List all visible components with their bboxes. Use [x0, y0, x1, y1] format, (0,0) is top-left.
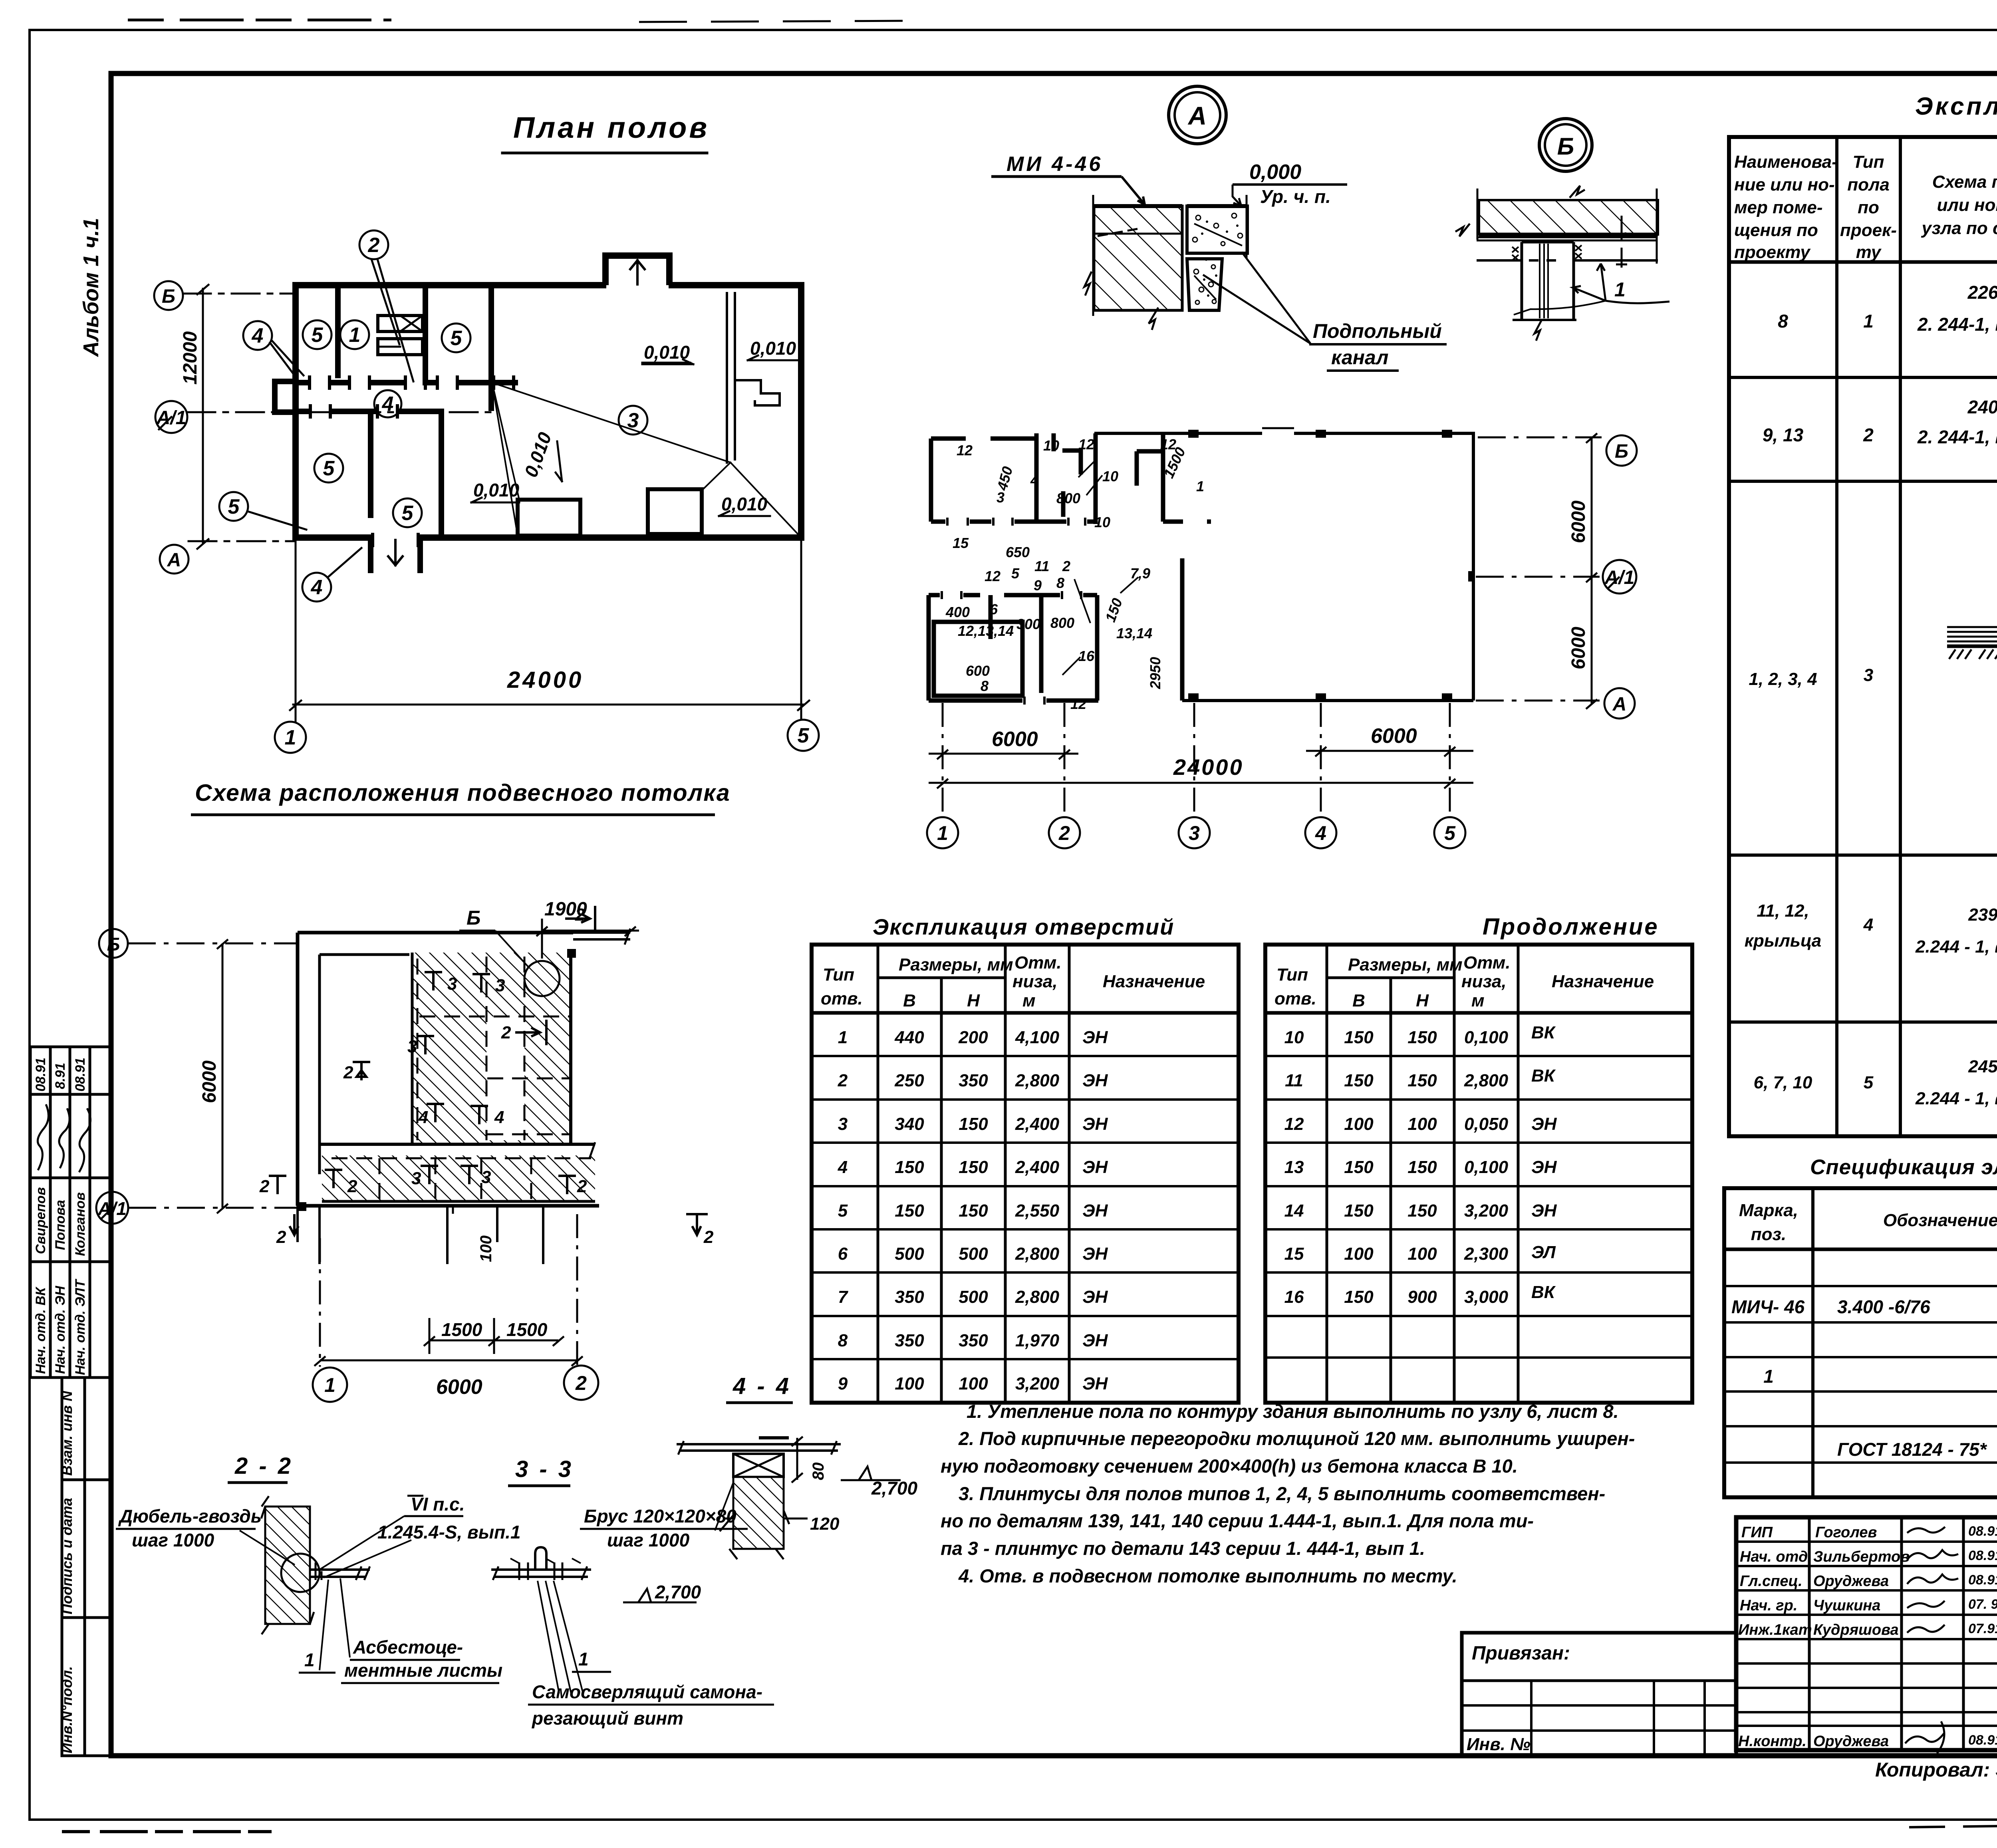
svg-text:10: 10 — [1102, 468, 1118, 484]
svg-text:8: 8 — [1056, 575, 1064, 591]
svg-text:5: 5 — [1444, 822, 1456, 844]
detail B callout — [1539, 119, 1592, 171]
svg-text:щения по: щения по — [1734, 220, 1818, 240]
svg-text:Марка,: Марка, — [1739, 1201, 1798, 1220]
table 1 data — [838, 1028, 1108, 1393]
speckles — [1193, 213, 1243, 304]
svg-text:Тип: Тип — [1853, 152, 1884, 172]
svg-text:07.91: 07.91 — [1968, 1621, 1997, 1636]
svg-text:Инв. №: Инв. № — [1467, 1735, 1531, 1754]
ceiling line — [1477, 259, 1658, 262]
svg-text:Попова: Попова — [53, 1200, 68, 1250]
svg-text:низа,: низа, — [1012, 972, 1058, 991]
svg-text:239: 239 — [1968, 905, 1997, 925]
svg-text:Размеры, мм: Размеры, мм — [899, 955, 1013, 975]
svg-text:350: 350 — [959, 1331, 988, 1350]
svg-text:поз.: поз. — [1751, 1225, 1786, 1244]
small left annex — [275, 381, 296, 412]
svg-text:10: 10 — [1284, 1028, 1304, 1047]
svg-text:ЭН: ЭН — [1082, 1201, 1108, 1221]
svg-text:12: 12 — [957, 442, 973, 459]
svg-text:2,800: 2,800 — [1015, 1287, 1060, 1307]
leader lines small plan — [1062, 459, 1138, 675]
svg-text:4: 4 — [1315, 822, 1326, 844]
svg-text:400: 400 — [945, 604, 970, 620]
svg-text:1900: 1900 — [544, 899, 587, 920]
svg-text:1: 1 — [1614, 278, 1626, 301]
svg-text:1.245.4-S, вып.1: 1.245.4-S, вып.1 — [377, 1522, 521, 1542]
svg-text:6: 6 — [838, 1244, 848, 1264]
svg-text:1: 1 — [1196, 478, 1204, 494]
svg-text:08.91: 08.91 — [73, 1058, 88, 1092]
svg-text:Нач. отд. ВК: Нач. отд. ВК — [33, 1286, 48, 1374]
svg-text:па 3 - плинтус по детали: па 3 - плинтус по детали 143 серии 1. 44… — [941, 1538, 1425, 1559]
svg-text:150: 150 — [1407, 1071, 1437, 1090]
slope diagonals — [492, 383, 801, 538]
svg-text:2,800: 2,800 — [1464, 1071, 1509, 1090]
svg-text:Ур. ч. п.: Ур. ч. п. — [1260, 186, 1331, 207]
svg-text:ЭЛ: ЭЛ — [1531, 1243, 1556, 1262]
svg-text:2,700: 2,700 — [655, 1582, 701, 1602]
svg-text:100: 100 — [1407, 1114, 1437, 1134]
svg-text:08.91: 08.91 — [1968, 1572, 1997, 1588]
svg-text:ГОСТ 18124 - 75*: ГОСТ 18124 - 75* — [1837, 1439, 1987, 1460]
section mark 2 top — [290, 906, 708, 1235]
svg-text:150: 150 — [895, 1157, 924, 1177]
svg-text:24000: 24000 — [1173, 754, 1244, 780]
svg-text:3: 3 — [627, 409, 639, 432]
svg-text:3: 3 — [411, 1169, 421, 1188]
svg-text:2: 2 — [838, 1071, 848, 1090]
svg-text:12: 12 — [1284, 1114, 1304, 1134]
vestibule arrow — [630, 260, 645, 284]
svg-text:5: 5 — [798, 724, 810, 747]
svg-text:ЭН: ЭН — [1082, 1374, 1108, 1393]
detail A callout — [1169, 86, 1226, 144]
svg-text:150: 150 — [959, 1201, 988, 1221]
svg-text:200: 200 — [958, 1028, 988, 1047]
svg-text:м: м — [1022, 991, 1036, 1010]
left rooms complex — [929, 433, 1211, 701]
svg-text:узла по серии: узла по серии — [1921, 218, 1997, 238]
svg-text:ЭН: ЭН — [1082, 1287, 1108, 1307]
svg-text:8: 8 — [981, 678, 989, 694]
B callout on plan — [524, 961, 560, 996]
svg-text:2: 2 — [259, 1177, 270, 1196]
svg-text:Тип: Тип — [823, 965, 854, 985]
svg-text:150: 150 — [1407, 1157, 1437, 1177]
svg-text:240: 240 — [1967, 397, 1997, 417]
svg-text:150: 150 — [959, 1114, 988, 1134]
column ticks on walls — [1188, 430, 1475, 701]
svg-text:Н: Н — [967, 991, 980, 1010]
svg-text:канал: канал — [1331, 346, 1388, 369]
svg-text:9: 9 — [1034, 577, 1042, 594]
floor trench double line — [727, 293, 780, 462]
row 3 — [1749, 492, 1997, 854]
svg-text:ЭН: ЭН — [1082, 1157, 1108, 1177]
svg-text:800: 800 — [1050, 615, 1074, 631]
svg-text:Оруджева: Оруджева — [1813, 1733, 1889, 1750]
row 2 — [1763, 397, 1997, 461]
svg-text:Инв.N°подл.: Инв.N°подл. — [59, 1666, 75, 1753]
signatures squiggles — [38, 1104, 90, 1172]
top band — [931, 437, 1034, 441]
svg-text:600: 600 — [966, 663, 990, 679]
svg-text:100: 100 — [1407, 1244, 1437, 1264]
level ticks right — [1616, 216, 1627, 268]
privyazan block — [1462, 1633, 1736, 1756]
svg-text:Взам. инв N: Взам. инв N — [59, 1390, 75, 1476]
door tick marks — [310, 377, 514, 546]
svg-text:4 - 4: 4 - 4 — [732, 1373, 791, 1399]
svg-text:150: 150 — [959, 1157, 988, 1177]
lower rooms — [927, 595, 931, 701]
svg-text:3: 3 — [838, 1114, 848, 1134]
svg-text:5: 5 — [451, 327, 463, 350]
svg-text:5: 5 — [838, 1201, 848, 1221]
svg-text:1: 1 — [349, 324, 361, 347]
hanger T symbols with numbers — [269, 972, 576, 1194]
svg-text:100: 100 — [477, 1235, 495, 1262]
below-plan columns — [298, 1206, 543, 1264]
svg-text:08.91: 08.91 — [1968, 1733, 1997, 1748]
svg-text:крыльца: крыльца — [1745, 931, 1822, 951]
svg-text:Гл.спец.: Гл.спец. — [1740, 1573, 1802, 1590]
svg-text:А: А — [1612, 694, 1627, 715]
svg-text:6000: 6000 — [1371, 725, 1417, 748]
svg-text:350: 350 — [895, 1331, 924, 1350]
svg-text:2,400: 2,400 — [1015, 1114, 1060, 1134]
svg-text:80: 80 — [810, 1463, 827, 1481]
svg-text:08.91: 08.91 — [1968, 1548, 1997, 1563]
svg-text:Гоголев: Гоголев — [1815, 1524, 1877, 1541]
svg-text:3: 3 — [1864, 665, 1873, 685]
svg-text:или номер: или номер — [1937, 195, 1997, 215]
bottom exit arrow — [388, 540, 403, 565]
svg-text:8.91: 8.91 — [53, 1063, 68, 1089]
svg-text:Отм.: Отм. — [1463, 953, 1511, 973]
svg-text:4. Отв. в подвесном потолк: 4. Отв. в подвесном потолке выполнить по… — [958, 1565, 1457, 1586]
svg-text:проек-: проек- — [1840, 220, 1897, 240]
svg-text:4: 4 — [418, 1108, 428, 1127]
svg-text:2: 2 — [368, 234, 380, 257]
svg-text:100: 100 — [895, 1374, 924, 1393]
svg-text:2,800: 2,800 — [1015, 1244, 1060, 1264]
svg-text:2: 2 — [501, 1023, 511, 1042]
svg-text:7: 7 — [838, 1287, 849, 1307]
svg-text:по: по — [1858, 198, 1879, 217]
row 4 — [1745, 862, 1997, 1022]
svg-text:ЭН: ЭН — [1082, 1071, 1108, 1090]
svg-text:2: 2 — [1863, 425, 1874, 445]
door ticks small plan — [942, 518, 1085, 705]
svg-text:500: 500 — [959, 1287, 988, 1307]
svg-text:ВК: ВК — [1531, 1066, 1556, 1086]
svg-text:Нач. отд. ЭН: Нач. отд. ЭН — [53, 1285, 68, 1374]
svg-text:1: 1 — [324, 1374, 335, 1396]
svg-text:2. Под кирпичные перегородки: 2. Под кирпичные перегородки толщиной 12… — [958, 1428, 1635, 1449]
svg-text:Назначение: Назначение — [1103, 972, 1205, 991]
svg-text:100: 100 — [1344, 1114, 1374, 1134]
svg-text:4: 4 — [838, 1157, 848, 1177]
svg-text:1: 1 — [304, 1650, 315, 1670]
svg-text:150: 150 — [1407, 1028, 1437, 1047]
svg-text:120: 120 — [810, 1514, 840, 1534]
svg-text:900: 900 — [1407, 1287, 1437, 1307]
svg-text:3: 3 — [407, 1037, 417, 1056]
svg-text:2: 2 — [276, 1227, 286, 1247]
svg-text:10: 10 — [1043, 437, 1059, 454]
svg-text:3: 3 — [447, 974, 457, 994]
svg-text:2.244 - 1, вып. 4: 2.244 - 1, вып. 4 — [1915, 1089, 1997, 1108]
svg-text:245: 245 — [1968, 1057, 1997, 1076]
svg-text:пола: пола — [1847, 175, 1890, 195]
room type number circles with leaders — [219, 230, 647, 601]
svg-text:Инж.1кат: Инж.1кат — [1738, 1622, 1812, 1638]
svg-text:9, 13: 9, 13 — [1763, 425, 1804, 445]
svg-text:Б: Б — [1615, 441, 1628, 462]
right axis circles — [1476, 435, 1637, 719]
svg-text:100: 100 — [1344, 1244, 1374, 1264]
svg-text:VI п.с.: VI п.с. — [411, 1494, 465, 1515]
svg-text:8: 8 — [1778, 311, 1788, 331]
svg-text:А: А — [167, 550, 181, 571]
svg-text:шаг 1000: шаг 1000 — [132, 1530, 214, 1550]
svg-text:2. 244-1, вып.4: 2. 244-1, вып.4 — [1917, 314, 1997, 335]
svg-text:низа,: низа, — [1461, 972, 1507, 991]
svg-text:Копировал: Зверева: Копировал: Зверева — [1875, 1759, 1997, 1781]
svg-text:Назначение: Назначение — [1552, 972, 1654, 991]
svg-text:А: А — [1187, 101, 1207, 130]
svg-text:Наименова-: Наименова- — [1734, 152, 1838, 172]
svg-text:0,100: 0,100 — [1464, 1157, 1509, 1177]
svg-text:100: 100 — [959, 1374, 988, 1393]
table 1 grid — [812, 945, 1239, 1403]
svg-text:4: 4 — [252, 324, 264, 347]
svg-text:ние или но-: ние или но- — [1734, 175, 1835, 195]
svg-text:3: 3 — [1189, 822, 1200, 844]
svg-text:4: 4 — [1863, 915, 1873, 935]
lower strip: Vzam / Podpis / Inv — [62, 1378, 111, 1756]
interior walls upper band — [275, 285, 515, 570]
signatures squiggles — [1905, 1527, 1958, 1753]
svg-text:мер поме-: мер поме- — [1734, 198, 1823, 217]
row 1 — [1778, 281, 1997, 361]
svg-text:Нач. гр.: Нач. гр. — [1740, 1597, 1797, 1614]
svg-text:Б: Б — [466, 907, 480, 929]
svg-text:150: 150 — [1344, 1157, 1374, 1177]
svg-text:Б: Б — [107, 934, 120, 955]
table 2 header — [1274, 953, 1654, 1010]
svg-text:МИЧ- 46: МИЧ- 46 — [1731, 1296, 1805, 1317]
svg-text:1. Утепление пола по контур: 1. Утепление пола по контуру здания выпо… — [967, 1401, 1619, 1422]
svg-text:Самосверлящий самона-: Самосверлящий самона- — [532, 1681, 762, 1702]
svg-text:ЭН: ЭН — [1531, 1157, 1557, 1177]
svg-text:Экспликация отверстий: Экспликация отверстий — [873, 914, 1174, 939]
svg-text:9: 9 — [838, 1374, 848, 1393]
svg-text:ту: ту — [1856, 242, 1882, 262]
svg-text:отв.: отв. — [1274, 989, 1316, 1008]
svg-text:150: 150 — [895, 1201, 924, 1221]
svg-text:11: 11 — [1034, 558, 1049, 574]
many small labels — [945, 436, 1204, 712]
svg-text:4: 4 — [494, 1108, 504, 1127]
header — [1734, 152, 1997, 262]
svg-text:350: 350 — [959, 1071, 988, 1090]
svg-text:1: 1 — [838, 1028, 848, 1047]
horizontal wall A y=958 with door gaps — [296, 380, 515, 385]
svg-text:Подпольный: Подпольный — [1313, 320, 1442, 342]
svg-text:3,200: 3,200 — [1015, 1374, 1060, 1393]
openings plan big room outline — [1094, 428, 1473, 701]
svg-text:Отм.: Отм. — [1014, 953, 1062, 973]
svg-text:Нач. отд.: Нач. отд. — [1740, 1548, 1812, 1565]
svg-text:А/1: А/1 — [97, 1198, 127, 1219]
svg-text:3,200: 3,200 — [1464, 1201, 1509, 1221]
dashed internal lines in hatched area — [417, 959, 419, 1140]
svg-text:Колганов: Колганов — [73, 1192, 88, 1256]
svg-text:440: 440 — [894, 1028, 924, 1047]
svg-text:13,14: 13,14 — [1116, 625, 1152, 641]
svg-text:ЭН: ЭН — [1531, 1114, 1557, 1134]
svg-text:2: 2 — [577, 1177, 587, 1196]
svg-text:ЭН: ЭН — [1531, 1201, 1557, 1221]
corner squares — [298, 949, 576, 1211]
svg-text:резающий винт: резающий винт — [531, 1708, 683, 1729]
detail B drawing — [1455, 186, 1658, 341]
svg-text:3. Плинтусы для полов типов: 3. Плинтусы для полов типов 1, 2, 4, 5 в… — [959, 1483, 1605, 1504]
svg-text:2: 2 — [1058, 822, 1070, 844]
svg-text:ную подготовку сечением 200: ную подготовку сечением 200×400(h) из бе… — [941, 1455, 1518, 1477]
bottom dims — [929, 703, 1473, 817]
svg-text:3,000: 3,000 — [1464, 1287, 1509, 1307]
svg-text:10: 10 — [1094, 514, 1110, 530]
svg-text:Зильбертов: Зильбертов — [1813, 1548, 1910, 1565]
svg-text:Б: Б — [162, 286, 175, 307]
slope labels 0,010 — [473, 338, 796, 514]
lower verticals — [368, 411, 373, 515]
svg-text:08.91: 08.91 — [33, 1058, 48, 1092]
svg-text:МИ 4-46: МИ 4-46 — [1006, 153, 1103, 176]
svg-text:5: 5 — [1011, 565, 1020, 582]
svg-text:А/1: А/1 — [1604, 567, 1635, 588]
signature columns — [1808, 1517, 1811, 1750]
svg-text:Брус 120×120×80: Брус 120×120×80 — [584, 1506, 736, 1526]
svg-text:2: 2 — [703, 1227, 714, 1247]
svg-text:Подпись и дата: Подпись и дата — [59, 1498, 75, 1614]
svg-text:4: 4 — [311, 576, 323, 599]
svg-text:1: 1 — [937, 822, 948, 844]
table 2 grid — [1265, 945, 1692, 1403]
svg-text:Размеры, мм: Размеры, мм — [1348, 955, 1463, 975]
svg-text:6000: 6000 — [1568, 627, 1589, 669]
svg-text:ЭН: ЭН — [1082, 1028, 1108, 1047]
svg-text:2. 244-1, вып.4: 2. 244-1, вып.4 — [1917, 427, 1997, 447]
svg-text:11, 12,: 11, 12, — [1757, 901, 1809, 921]
table 2 data — [1284, 1023, 1557, 1307]
row 5 — [1754, 1035, 1997, 1135]
svg-text:2,400: 2,400 — [1015, 1157, 1060, 1177]
svg-text:Оруджева: Оруджева — [1813, 1573, 1889, 1590]
svg-text:12000: 12000 — [180, 331, 201, 385]
svg-text:7,9: 7,9 — [1130, 565, 1150, 582]
svg-text:15: 15 — [953, 535, 969, 551]
svg-text:6000: 6000 — [992, 728, 1038, 751]
svg-text:1: 1 — [1763, 1366, 1774, 1387]
svg-text:500: 500 — [895, 1244, 924, 1264]
svg-text:2: 2 — [343, 1063, 353, 1082]
fixing x marks — [1512, 247, 1519, 260]
svg-text:11: 11 — [1285, 1071, 1303, 1090]
svg-text:350: 350 — [895, 1287, 924, 1307]
svg-text:340: 340 — [895, 1114, 924, 1134]
svg-text:5: 5 — [323, 457, 335, 480]
svg-text:3: 3 — [997, 489, 1004, 506]
horizontal wall B y=1030 with gaps — [296, 409, 441, 414]
svg-text:Спецификация элементов пола: Спецификация элементов пола и подвесного… — [1810, 1155, 1997, 1179]
svg-text:2: 2 — [347, 1177, 357, 1196]
svg-text:150: 150 — [1344, 1028, 1374, 1047]
signature rows — [1736, 1540, 1997, 1543]
svg-text:250: 250 — [894, 1071, 924, 1090]
svg-text:Кудряшова: Кудряшова — [1813, 1622, 1899, 1638]
outer walls — [296, 256, 801, 538]
svg-text:226: 226 — [1967, 282, 1997, 303]
svg-text:500: 500 — [959, 1244, 988, 1264]
hatched areas — [412, 953, 571, 1143]
svg-text:Продолжение: Продолжение — [1483, 914, 1659, 940]
svg-text:6000: 6000 — [199, 1060, 220, 1103]
svg-text:14: 14 — [1284, 1201, 1304, 1221]
svg-text:1: 1 — [1863, 311, 1874, 331]
hanger box — [1522, 242, 1574, 320]
svg-text:Схема расположения подвесного: Схема расположения подвесного потолка — [195, 780, 731, 806]
svg-text:5: 5 — [1864, 1073, 1874, 1092]
svg-text:1, 2, 3, 4: 1, 2, 3, 4 — [1749, 669, 1817, 689]
svg-text:отв.: отв. — [821, 989, 863, 1008]
stairs block — [378, 316, 423, 355]
svg-text:16: 16 — [1078, 648, 1095, 664]
right upper speckled slab — [1187, 206, 1247, 253]
middle wall band y1490 — [929, 593, 1097, 597]
left big hatched block — [1094, 206, 1182, 310]
bottom dim 24000 and axes 1,5 — [275, 540, 819, 753]
channel lower trapezoid — [1187, 259, 1222, 310]
svg-text:Альбом 1 ч.1: Альбом 1 ч.1 — [79, 218, 103, 357]
svg-text:В: В — [1352, 991, 1365, 1010]
svg-text:800: 800 — [1056, 490, 1080, 506]
svg-text:2950: 2950 — [1147, 657, 1163, 689]
svg-text:150: 150 — [1344, 1071, 1374, 1090]
svg-text:6000: 6000 — [436, 1376, 482, 1399]
svg-text:5: 5 — [228, 495, 240, 518]
svg-text:м: м — [1471, 991, 1485, 1010]
svg-text:4,100: 4,100 — [1015, 1028, 1060, 1047]
svg-text:15: 15 — [1284, 1244, 1304, 1264]
equipment rectangles — [518, 500, 580, 536]
svg-text:12: 12 — [985, 568, 1000, 584]
svg-text:5: 5 — [312, 324, 324, 347]
svg-text:Экспликация полов: Экспликация полов — [1915, 93, 1997, 120]
vestibule top — [605, 256, 669, 282]
svg-text:07. 91: 07. 91 — [1968, 1597, 1997, 1612]
svg-text:6: 6 — [990, 601, 998, 617]
svg-text:650: 650 — [1006, 544, 1030, 560]
svg-text:ГИП: ГИП — [1741, 1524, 1773, 1541]
svg-text:12: 12 — [1078, 436, 1094, 453]
svg-text:Обозначение: Обозначение — [1883, 1211, 1997, 1230]
